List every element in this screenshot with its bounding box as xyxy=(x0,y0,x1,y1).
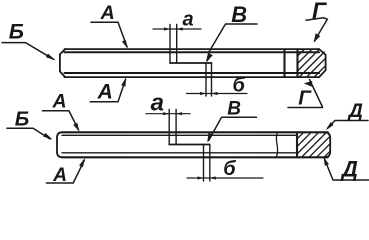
label A1 top leader xyxy=(91,22,127,47)
dim b arrows xyxy=(200,92,206,95)
svg-text:Г: Г xyxy=(312,0,327,24)
bar1 hatched tip region xyxy=(298,49,326,77)
bar2 joint seam xyxy=(169,144,210,146)
svg-text:Д: Д xyxy=(347,100,363,122)
svg-text:А: А xyxy=(97,81,113,104)
arrow tip of Д2 bottom xyxy=(324,157,329,166)
bar2 hatched tip region xyxy=(297,132,330,157)
label А2 bottom leader xyxy=(46,160,84,183)
dimension a line (bottom drawing) xyxy=(146,113,190,115)
arrow tip of Г1 bottom xyxy=(304,81,313,87)
bar1 hatch boundary vertical x=297.5 xyxy=(296,49,298,77)
svg-text:Г: Г xyxy=(298,87,312,110)
bar1 right end chamfered tip xyxy=(319,49,326,77)
svg-text:а: а xyxy=(151,89,164,116)
arrow tip of Г1 top xyxy=(314,33,321,42)
label A1 bottom leader xyxy=(90,80,125,102)
dimension b line (top drawing) xyxy=(187,93,248,95)
bar1 top edge (double line) xyxy=(65,49,320,52)
bar1 left end (chamfered) xyxy=(60,49,65,77)
svg-text:В: В xyxy=(227,99,241,120)
arrow tip of Б2 xyxy=(43,133,52,140)
svg-text:Б: Б xyxy=(9,19,24,43)
bar2 break line (wavy) xyxy=(276,132,277,158)
label А2 top leader xyxy=(42,111,78,130)
label Д2 top leader xyxy=(328,121,368,128)
bar2 hatch boundary vertical x=297 xyxy=(296,132,298,157)
bar1 joint: lower gap verticals (dim b) xyxy=(205,63,207,96)
arrow tip of А2 top xyxy=(73,123,79,132)
label Б2 leader xyxy=(7,128,50,139)
bar2 left rounded end xyxy=(57,132,62,157)
svg-text:Б: Б xyxy=(15,107,30,130)
svg-text:а: а xyxy=(183,9,194,31)
arrow tip of Б1 xyxy=(46,54,56,61)
arrow tip of В1 xyxy=(206,53,213,63)
label G1 bottom (Г) leader xyxy=(288,80,323,108)
bar1 bottom edge (double line) xyxy=(65,73,320,77)
svg-text:А: А xyxy=(100,2,115,24)
dimension line a (top drawing) xyxy=(153,28,201,30)
dim a arrows xyxy=(164,27,170,30)
label G1 top (Г) leader xyxy=(306,18,327,41)
bar2 joint lower gap verticals xyxy=(203,145,205,182)
arrow tip of А1 top xyxy=(122,40,128,49)
arrow tip of А1 bottom xyxy=(121,77,126,86)
arrow tip of Д2 top xyxy=(326,122,334,130)
bar2 joint upper gap verticals xyxy=(168,110,170,145)
bar1 joint seam xyxy=(170,62,212,64)
label B1 (Б) leader xyxy=(2,43,54,60)
svg-text:В: В xyxy=(231,2,247,27)
svg-text:А: А xyxy=(52,91,67,113)
bar1 joint: upper gap verticals (dim a) xyxy=(169,25,171,64)
label Д2 bottom leader xyxy=(325,159,369,180)
svg-text:Д: Д xyxy=(340,157,358,182)
dim b2 arrows xyxy=(198,176,204,179)
arrow tip of В2 xyxy=(207,133,213,143)
bar2 right end xyxy=(326,132,330,157)
bar2 bottom edge (double line) xyxy=(62,153,328,158)
svg-text:б: б xyxy=(223,158,236,180)
label В2 leader xyxy=(209,117,257,140)
arrow tip of А2 bottom xyxy=(79,158,85,168)
svg-text:А: А xyxy=(52,165,67,186)
svg-text:б: б xyxy=(233,75,246,97)
dim a2 arrows xyxy=(163,112,169,115)
label V1 (В) leader xyxy=(207,24,257,61)
dimension b line (bottom drawing) xyxy=(187,177,263,179)
bar1 separator vertical x=284.5 xyxy=(283,49,285,77)
bar2 top edge (double line) xyxy=(62,132,328,135)
